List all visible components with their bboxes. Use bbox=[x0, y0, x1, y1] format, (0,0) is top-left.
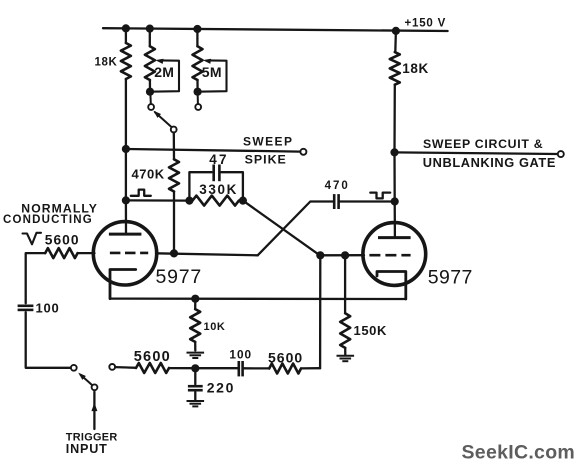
resistor 18K (left plate load) bbox=[125, 28, 127, 43]
wire sweep spike output bbox=[126, 149, 300, 152]
svg-text:10K: 10K bbox=[204, 321, 226, 333]
svg-text:470: 470 bbox=[325, 180, 350, 192]
wire 220 node to 100 cap bbox=[195, 367, 237, 369]
svg-text:5977: 5977 bbox=[156, 266, 203, 288]
svg-text:5600: 5600 bbox=[45, 232, 80, 247]
terminal switch pole circle bbox=[171, 127, 177, 133]
capacitor C 470 coupling bbox=[333, 194, 336, 209]
svg-text:+150 V: +150 V bbox=[405, 17, 447, 29]
potentiometer 5M bbox=[196, 29, 198, 46]
wire +150V supply rail bbox=[103, 28, 448, 31]
waveform positive pulse symbol bbox=[131, 190, 151, 196]
node grid/150K junction bbox=[341, 251, 349, 259]
wire diagonal 330K to right grid bbox=[243, 201, 320, 256]
node cathode/10K junction bbox=[191, 295, 199, 303]
svg-text:47: 47 bbox=[209, 152, 229, 167]
capacitor C 100 (left) bbox=[18, 304, 34, 307]
wire sweep circuit output bbox=[395, 152, 558, 154]
capacitor C 220 bbox=[194, 368, 196, 384]
svg-text:SPIKE: SPIKE bbox=[245, 152, 287, 166]
tube V1 5977 envelope bbox=[93, 222, 156, 285]
node 330K left junction bbox=[185, 197, 193, 205]
ground 10K bbox=[187, 352, 205, 354]
ground 220 bbox=[187, 400, 205, 402]
terminal output circle bbox=[558, 151, 564, 157]
wire switch pole down to 470K bbox=[173, 133, 175, 160]
svg-text:UNBLANKING GATE: UNBLANKING GATE bbox=[423, 155, 556, 170]
resistor 5600 second bbox=[269, 364, 301, 374]
waveform negative pulse symbol bbox=[370, 193, 390, 199]
svg-text:150K: 150K bbox=[354, 323, 387, 338]
svg-text:330K: 330K bbox=[199, 182, 238, 197]
switch range selector arm bbox=[155, 112, 172, 127]
node junction rail/5M bbox=[193, 25, 201, 33]
node left plate junction bbox=[122, 196, 130, 204]
terminal sweep spike circle bbox=[300, 149, 306, 155]
svg-text:100: 100 bbox=[229, 347, 252, 361]
node 470K/grid junction bbox=[170, 249, 178, 257]
svg-text:5977: 5977 bbox=[428, 266, 473, 288]
resistor 18K (right plate load) bbox=[394, 31, 397, 52]
left tube plate bbox=[125, 200, 127, 232]
resistor 470K bbox=[169, 159, 179, 191]
waveform sawtooth spike symbol bbox=[23, 233, 42, 245]
svg-text:18K: 18K bbox=[402, 61, 429, 76]
capacitor C 47 bypass loop bbox=[189, 172, 211, 200]
wire 100 cap down to trigger switch bbox=[26, 312, 71, 368]
node 220 junction bbox=[191, 364, 199, 372]
right tube plate bbox=[378, 236, 411, 239]
resistor 5600 first bbox=[136, 363, 169, 373]
wire left grid lead bbox=[78, 252, 95, 254]
wire grid resistor to left rail bbox=[26, 253, 46, 303]
svg-text:SWEEP: SWEEP bbox=[243, 135, 293, 149]
wire cathode bus bbox=[110, 297, 406, 300]
right tube grid (dashed) bbox=[369, 254, 410, 257]
node output junction bbox=[390, 148, 398, 156]
node junction rail/2M bbox=[146, 25, 154, 33]
left tube cathode bbox=[110, 270, 136, 299]
terminal 2M wiper tap circle bbox=[148, 104, 154, 110]
wire right grid down to 5600 row bbox=[319, 255, 321, 368]
wire 5600 second to grid riser bbox=[301, 367, 320, 369]
wire diagonal left grid to 470 cap bbox=[258, 202, 334, 256]
capacitor C 100 (coupling) bbox=[238, 361, 241, 376]
wire left plate to 330K bbox=[126, 199, 189, 202]
left tube grid (dashed) bbox=[110, 252, 148, 255]
node 330K right junction bbox=[239, 197, 247, 205]
wire left 18K down to plate node bbox=[125, 149, 127, 200]
terminal 5M tap circle bbox=[195, 104, 201, 110]
wire left grid to diagonal bbox=[156, 253, 258, 255]
node right plate/470 junction bbox=[391, 197, 399, 205]
switch trigger arm bbox=[81, 375, 93, 385]
svg-text:5600: 5600 bbox=[268, 349, 303, 365]
resistor 330K bbox=[193, 196, 239, 206]
resistor 10K bbox=[194, 299, 196, 309]
tube V2 5977 envelope bbox=[363, 223, 426, 286]
node junction rail/18K left bbox=[122, 24, 130, 32]
svg-text:2M: 2M bbox=[154, 64, 174, 80]
ground 150K bbox=[337, 355, 355, 357]
terminal trigger switch pole circle bbox=[92, 384, 98, 390]
svg-text:5600: 5600 bbox=[134, 349, 171, 365]
terminal trigger switch top circle bbox=[71, 365, 77, 371]
svg-text:CONDUCTING: CONDUCTING bbox=[3, 214, 93, 226]
potentiometer 2M bbox=[149, 29, 151, 47]
wire right plate node vertical bbox=[393, 152, 396, 236]
wire 100 cap to 5600 second bbox=[244, 367, 269, 369]
svg-text:470K: 470K bbox=[132, 166, 165, 181]
node junction rail/18K right bbox=[392, 27, 400, 35]
wire trigger input with arrow bbox=[93, 392, 95, 429]
svg-text:18K: 18K bbox=[95, 56, 118, 68]
wire terminal to 5600 bbox=[115, 366, 136, 369]
wire right grid lead bbox=[320, 254, 364, 256]
right tube cathode bbox=[377, 272, 406, 300]
svg-text:220: 220 bbox=[207, 380, 235, 396]
wire 5600 to 220 node bbox=[169, 367, 195, 369]
svg-text:SWEEP CIRCUIT &: SWEEP CIRCUIT & bbox=[423, 137, 543, 151]
resistor 150K bbox=[344, 255, 346, 313]
svg-text:INPUT: INPUT bbox=[66, 442, 108, 456]
node grid/coupling junction bbox=[316, 251, 324, 259]
terminal 5600 input circle bbox=[109, 364, 115, 370]
svg-text:100: 100 bbox=[36, 300, 60, 315]
svg-text:5M: 5M bbox=[202, 64, 222, 80]
resistor 5600 grid (left) bbox=[45, 248, 77, 258]
node sweep spike junction bbox=[122, 145, 130, 153]
svg-text:SeekIC.com: SeekIC.com bbox=[462, 441, 576, 463]
